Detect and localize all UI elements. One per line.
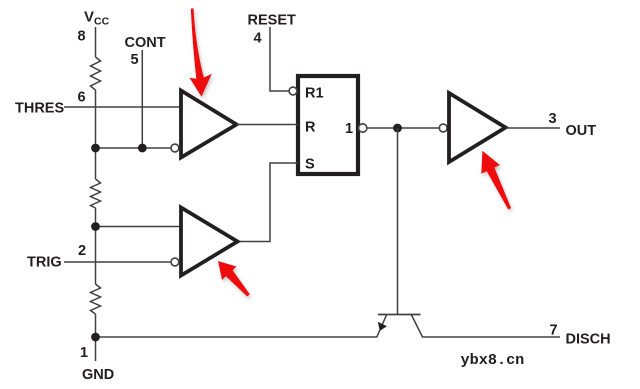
- svg-text:RESET: RESET: [248, 13, 296, 29]
- wire RESET: [270, 27, 289, 91]
- wire comparator2 to S: [238, 163, 299, 242]
- annotation red arrow 3: [481, 151, 511, 210]
- svg-text:8: 8: [78, 28, 86, 44]
- wire control node: [96, 147, 172, 149]
- wire latch output to buffer: [367, 127, 439, 129]
- wire TRIG: [64, 261, 171, 263]
- op-amp comparator 2 (trigger): [181, 208, 238, 276]
- svg-text:CC: CC: [94, 16, 110, 28]
- node junction rail-control: [91, 144, 100, 153]
- annotation red arrow 2: [218, 261, 250, 297]
- wire THRES: [64, 106, 181, 108]
- resistor RA: [91, 57, 101, 90]
- svg-text:1: 1: [80, 345, 88, 361]
- resistor RB: [91, 179, 101, 208]
- annotation red arrow 1: [190, 8, 212, 97]
- svg-text:5: 5: [131, 52, 139, 68]
- svg-text:3: 3: [549, 111, 557, 127]
- svg-text:V: V: [84, 9, 94, 26]
- bubble latch output: [359, 124, 367, 132]
- svg-text:7: 7: [550, 323, 558, 339]
- wire CONT: [141, 50, 143, 148]
- svg-text:ybx8.cn: ybx8.cn: [461, 351, 525, 369]
- svg-text:GND: GND: [82, 367, 114, 383]
- wire divider to comparator 2: [96, 226, 182, 228]
- svg-text:DISCH: DISCH: [566, 332, 611, 348]
- wire rail mid2: [95, 208, 97, 284]
- wire Vcc rail top: [95, 27, 97, 57]
- svg-text:R1: R1: [305, 86, 324, 102]
- svg-text:CONT: CONT: [125, 35, 166, 51]
- wire rail mid1: [95, 90, 97, 179]
- wire comparator1 to R: [237, 124, 299, 126]
- wire buffer to OUT: [506, 127, 561, 129]
- wire rail bottom: [95, 314, 97, 361]
- node junction ground rail: [91, 333, 100, 342]
- transistor Q1 collector wire to DISCH: [412, 315, 561, 337]
- label Vcc: [84, 9, 110, 28]
- op-amp comparator 1 (threshold): [181, 91, 237, 158]
- node junction trigger divider: [91, 222, 100, 231]
- transistor Q1 emitter wire to ground rail: [96, 315, 387, 337]
- svg-text:THRES: THRES: [15, 101, 64, 117]
- svg-text:2: 2: [78, 243, 86, 259]
- transistor Q1 base bar: [378, 314, 421, 316]
- svg-text:1: 1: [345, 121, 353, 137]
- svg-text:TRIG: TRIG: [27, 255, 62, 271]
- wire node to transistor base: [397, 128, 399, 314]
- svg-text:OUT: OUT: [566, 123, 597, 139]
- resistor RC: [91, 284, 101, 314]
- svg-text:6: 6: [78, 90, 86, 106]
- svg-text:R: R: [305, 120, 316, 136]
- svg-text:4: 4: [254, 31, 262, 47]
- node junction output-discharge: [393, 124, 402, 133]
- bubble buffer input: [439, 124, 447, 132]
- transistor Q1 emitter arrow: [378, 322, 387, 331]
- svg-text:S: S: [305, 157, 315, 173]
- latch U1: [298, 76, 358, 174]
- buffer U2 output inverter: [449, 93, 506, 162]
- node junction cont-control: [138, 144, 147, 153]
- bubble latch R1 input: [289, 87, 297, 95]
- bubble comparator 2 inverting input: [171, 258, 179, 266]
- bubble comparator 1 inverting input: [171, 144, 179, 152]
